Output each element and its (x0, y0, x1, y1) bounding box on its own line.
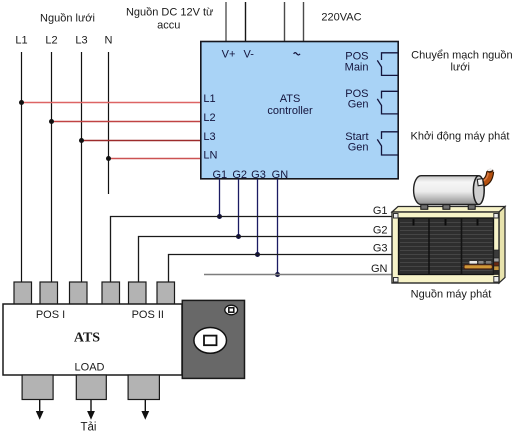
svg-text:Tải: Tải (81, 422, 97, 432)
svg-text:L1: L1 (203, 93, 215, 105)
svg-text:Nguồn DC 12V từ: Nguồn DC 12V từ (126, 7, 214, 19)
svg-text:Gen: Gen (348, 142, 369, 154)
svg-text:ATS: ATS (280, 93, 301, 105)
svg-text:G3: G3 (251, 169, 266, 181)
svg-text:L2: L2 (45, 35, 57, 47)
svg-text:L1: L1 (15, 35, 27, 47)
svg-text:L2: L2 (203, 112, 215, 124)
svg-text:LOAD: LOAD (75, 362, 105, 374)
svg-text:220VAC: 220VAC (321, 12, 361, 24)
svg-text:LN: LN (203, 149, 217, 161)
svg-text:Main: Main (345, 61, 369, 73)
svg-text:GN: GN (371, 263, 388, 275)
svg-text:V-: V- (243, 48, 254, 60)
svg-text:GN: GN (272, 169, 289, 181)
svg-text:Chuyển mạch nguồn: Chuyển mạch nguồn (411, 49, 513, 61)
svg-text:G3: G3 (373, 243, 388, 255)
svg-text:POS I: POS I (36, 309, 65, 321)
svg-text:lưới: lưới (450, 61, 469, 73)
svg-text:G2: G2 (373, 225, 388, 237)
svg-text:Nguồn lưới: Nguồn lưới (40, 13, 95, 25)
svg-text:ATS: ATS (74, 331, 100, 346)
svg-text:Gen: Gen (348, 99, 369, 111)
svg-text:G2: G2 (232, 169, 247, 181)
svg-text:N: N (105, 35, 113, 47)
svg-text:L3: L3 (203, 131, 215, 143)
svg-text:controller: controller (267, 105, 313, 117)
svg-text:L3: L3 (75, 35, 87, 47)
svg-text:V+: V+ (222, 48, 236, 60)
svg-text:G1: G1 (373, 205, 388, 217)
svg-text:accu: accu (157, 20, 180, 32)
svg-text:Nguồn máy phát: Nguồn máy phát (411, 289, 492, 301)
svg-text:Khởi động máy phát: Khởi động máy phát (411, 131, 510, 143)
svg-text:POS II: POS II (132, 309, 164, 321)
